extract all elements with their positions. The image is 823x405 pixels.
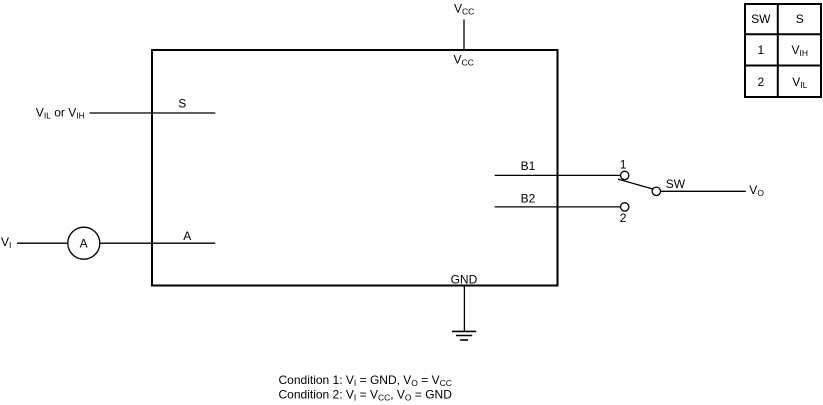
svg-text:VI: VI (1, 235, 11, 250)
svg-text:A: A (183, 229, 191, 243)
svg-text:GND: GND (451, 273, 478, 287)
svg-text:2: 2 (620, 211, 627, 225)
svg-text:2: 2 (757, 75, 764, 89)
svg-text:SW: SW (666, 177, 686, 191)
svg-text:S: S (796, 12, 804, 26)
svg-text:VIH: VIH (792, 43, 809, 58)
svg-text:1: 1 (620, 158, 627, 172)
svg-text:A: A (80, 237, 88, 251)
svg-text:VCC: VCC (454, 53, 474, 68)
svg-text:Condition 2: VI = VCC, VO = GN: Condition 2: VI = VCC, VO = GND (279, 388, 453, 403)
svg-text:B1: B1 (521, 159, 536, 173)
svg-text:Condition 1: VI = GND, VO = VC: Condition 1: VI = GND, VO = VCC (279, 373, 452, 388)
svg-text:SW: SW (751, 12, 771, 26)
svg-text:VCC: VCC (454, 2, 474, 17)
svg-text:1: 1 (757, 43, 764, 57)
svg-text:S: S (178, 96, 186, 110)
svg-text:VO: VO (749, 183, 764, 198)
svg-text:B2: B2 (521, 192, 536, 206)
svg-text:VIL or VIH: VIL or VIH (36, 106, 85, 121)
svg-text:VIL: VIL (792, 75, 807, 90)
